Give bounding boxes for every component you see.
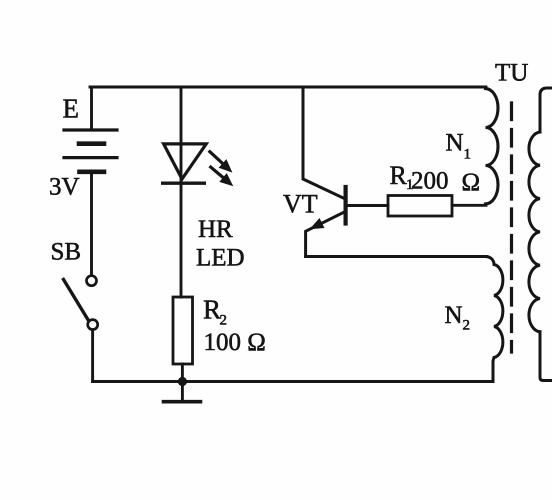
- LED HR diode triangle: [164, 144, 207, 179]
- svg-text:R: R: [203, 295, 221, 325]
- resistor R2 body: [173, 297, 193, 364]
- label TU: [495, 60, 528, 87]
- LED light arrow 1: [210, 152, 233, 173]
- label R1: [390, 161, 414, 193]
- svg-text:200: 200: [411, 168, 449, 195]
- wire battery positive lead: [90, 88, 93, 129]
- label LED: [196, 245, 245, 272]
- switch SB upper contact: [87, 276, 97, 286]
- wire R1 to winding N1: [452, 204, 486, 207]
- transformer secondary winding top lead: [540, 88, 552, 132]
- transistor VT emitter with arrow: [306, 212, 345, 257]
- svg-text:100 Ω: 100 Ω: [204, 329, 266, 356]
- label N1: [446, 130, 472, 163]
- svg-text:E: E: [63, 94, 80, 124]
- wire bottom rail: [93, 380, 493, 383]
- junction dot at ground node: [178, 377, 187, 386]
- svg-text:VT: VT: [283, 190, 318, 219]
- svg-text:Ω: Ω: [462, 169, 481, 196]
- svg-text:LED: LED: [196, 245, 245, 272]
- LED cathode bar: [163, 181, 205, 184]
- battery E 3V: [64, 130, 117, 172]
- svg-text:N: N: [445, 302, 463, 329]
- wire base lead to R1: [347, 204, 388, 207]
- switch SB blade: [64, 280, 89, 321]
- wire battery to switch: [90, 172, 93, 275]
- svg-text:2: 2: [220, 313, 228, 329]
- svg-text:HR: HR: [198, 216, 233, 243]
- wire emitter rail to winding N2: [306, 255, 486, 258]
- wire LED branch (anode from top rail, cathode to R2): [180, 87, 183, 297]
- label 100 ohm: [204, 329, 266, 356]
- transformer secondary winding bottom lead: [540, 332, 552, 381]
- label HR: [198, 216, 233, 243]
- label E: [63, 94, 80, 124]
- label 3V: [49, 174, 80, 201]
- svg-text:N: N: [446, 130, 464, 157]
- svg-text:SB: SB: [51, 239, 82, 266]
- label R2: [203, 295, 227, 329]
- transformer primary winding N1: [486, 89, 499, 206]
- svg-text:1: 1: [464, 147, 472, 163]
- label SB: [51, 239, 82, 266]
- wire collector branch from top rail: [303, 87, 344, 199]
- transformer feedback winding N2: [486, 257, 503, 382]
- transformer secondary winding: [529, 132, 540, 332]
- wire top rail from battery to transformer N1: [90, 86, 486, 89]
- label VT: [283, 190, 318, 219]
- resistor R1 body: [388, 196, 452, 217]
- svg-text:3V: 3V: [49, 174, 80, 201]
- LED light arrow 2: [211, 167, 234, 186]
- svg-text:2: 2: [463, 318, 471, 334]
- wire R2 to bottom rail: [181, 364, 184, 382]
- wire switch to bottom rail: [91, 330, 94, 382]
- label 200 ohm: [411, 168, 480, 197]
- transformer core (dashed): [510, 103, 513, 352]
- ground symbol: [164, 382, 201, 402]
- svg-text:TU: TU: [495, 60, 528, 87]
- switch SB lower contact: [88, 320, 98, 330]
- label N2: [445, 302, 471, 334]
- svg-text:R: R: [390, 161, 408, 190]
- transistor VT base bar: [344, 187, 348, 224]
